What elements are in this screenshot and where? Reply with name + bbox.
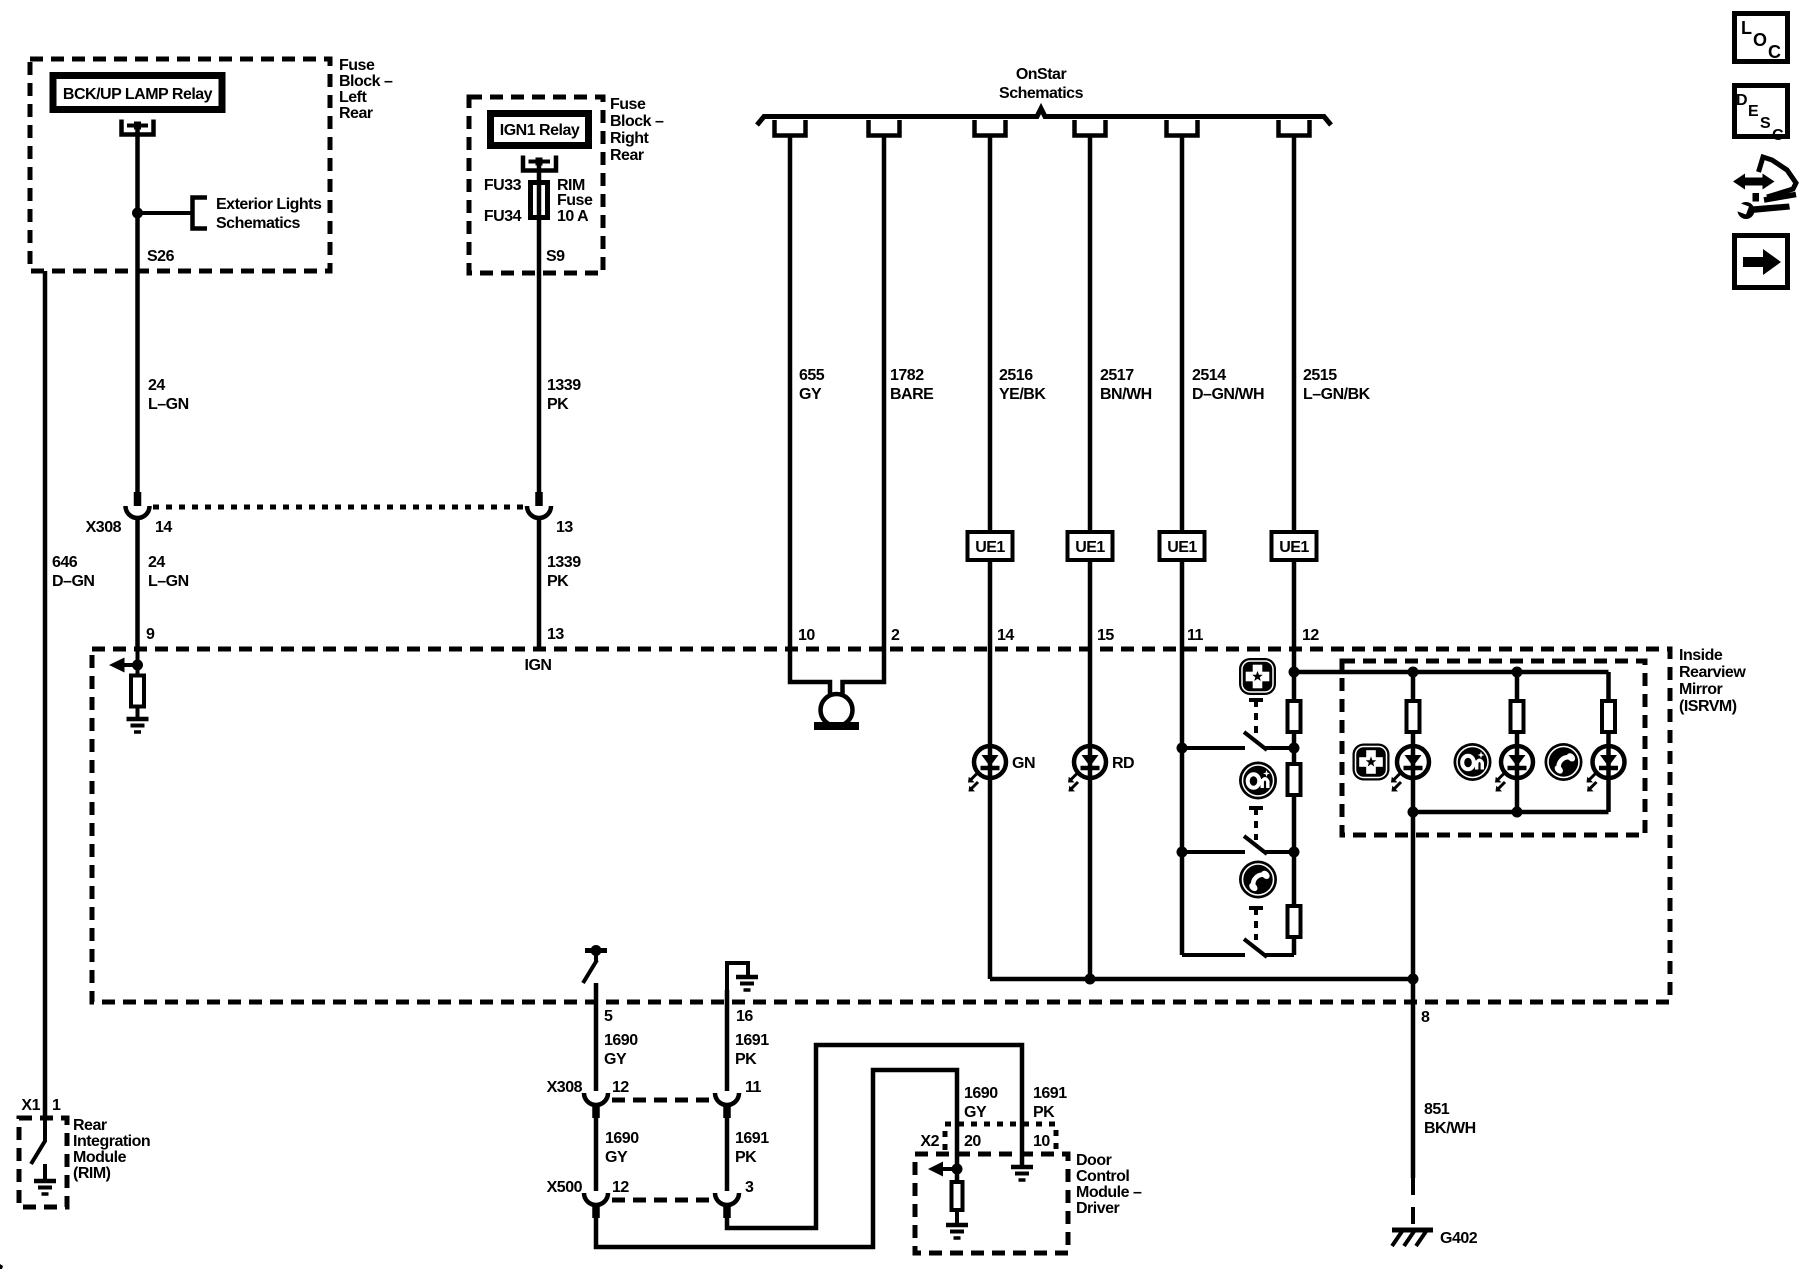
- svg-text:655: 655: [799, 367, 825, 384]
- OnStar button linkage: [1249, 808, 1263, 840]
- svg-text:Left: Left: [339, 89, 368, 106]
- svg-text:PK: PK: [735, 1051, 757, 1068]
- LED cluster bottom rail: [1413, 810, 1609, 815]
- node return bus junction: [1408, 974, 1419, 985]
- svg-text:10: 10: [798, 627, 815, 644]
- svg-text:(ISRVM): (ISRVM): [1679, 698, 1737, 715]
- wire label 1690 GY upper: [604, 1032, 638, 1068]
- connector X500 dashed link: [612, 1198, 713, 1203]
- svg-text:IGN1 Relay: IGN1 Relay: [500, 122, 580, 139]
- wire 2517 BN/WH: [1088, 135, 1093, 979]
- wire pin9 to ground: [136, 649, 140, 718]
- svg-text:3: 3: [745, 1179, 754, 1196]
- phone cluster icon: [1545, 743, 1583, 781]
- wire branch to Exterior Lights Schematics: [138, 211, 193, 215]
- ground internal pin16: [736, 977, 758, 990]
- svg-text:Block –: Block –: [339, 73, 393, 90]
- ISRVM label: [1679, 647, 1746, 715]
- svg-text:X500: X500: [547, 1179, 583, 1196]
- OnStar cluster icon: [1454, 743, 1492, 781]
- cluster LED2: [1495, 746, 1533, 792]
- svg-text:UE1: UE1: [1075, 539, 1105, 556]
- svg-text:1691: 1691: [735, 1032, 769, 1049]
- wire 2514 D-GN/WH: [1180, 135, 1185, 955]
- svg-text:GY: GY: [964, 1104, 987, 1121]
- svg-text:20: 20: [964, 1133, 981, 1150]
- wire 655 GY: [790, 135, 830, 695]
- svg-text:Schematics: Schematics: [999, 85, 1084, 102]
- svg-text:1339: 1339: [547, 377, 581, 394]
- fuse block left rear label: [339, 57, 393, 122]
- svg-text:C: C: [1772, 127, 1784, 144]
- OnStar switch blade: [1244, 836, 1294, 854]
- svg-text:GY: GY: [799, 386, 822, 403]
- svg-text:9: 9: [146, 626, 155, 643]
- LED indicator GN: [968, 746, 1006, 792]
- svg-text:646: 646: [52, 554, 78, 571]
- svg-text:L–GN: L–GN: [148, 396, 189, 413]
- svg-text:Exterior Lights: Exterior Lights: [216, 196, 322, 213]
- LED indicator RD: [1068, 746, 1106, 792]
- svg-text:1690: 1690: [604, 1032, 638, 1049]
- svg-text:Fuse: Fuse: [339, 57, 375, 74]
- svg-text:1691: 1691: [735, 1130, 769, 1147]
- wire pin5: [594, 983, 599, 1091]
- node branch2 top: [1512, 667, 1523, 678]
- relay K1 BCK/UP LAMP Relay box: [53, 76, 222, 110]
- wire label 2515: [1303, 367, 1371, 403]
- svg-text:11: 11: [1187, 627, 1204, 644]
- svg-text:(RIM): (RIM): [73, 1165, 111, 1182]
- svg-text:D–GN/WH: D–GN/WH: [1192, 386, 1264, 403]
- svg-text:1: 1: [52, 1097, 61, 1114]
- svg-text:E: E: [1748, 103, 1759, 120]
- wire label 2514: [1192, 367, 1264, 403]
- svg-text:IGN: IGN: [525, 657, 552, 674]
- resistor R3 on wire 12: [1288, 906, 1301, 937]
- svg-text:Mirror: Mirror: [1679, 681, 1723, 698]
- svg-text:Rear: Rear: [73, 1117, 107, 1134]
- wire 2515 L-GN/BK: [1292, 135, 1297, 955]
- svg-text:13: 13: [556, 519, 573, 536]
- svg-text:UE1: UE1: [1167, 539, 1197, 556]
- wire 1691 PK routing: [727, 1045, 1022, 1228]
- svg-text:1691: 1691: [1033, 1085, 1067, 1102]
- wire 851 dashed to G402: [1411, 1178, 1415, 1230]
- svg-text:L–GN/BK: L–GN/BK: [1303, 386, 1371, 403]
- svg-text:Module –: Module –: [1076, 1184, 1142, 1201]
- resistor R2 on wire 12: [1288, 764, 1301, 795]
- svg-text:2517: 2517: [1100, 367, 1134, 384]
- svg-text:24: 24: [148, 377, 165, 394]
- svg-text:Fuse: Fuse: [557, 192, 593, 209]
- svg-text:15: 15: [1097, 627, 1114, 644]
- rear integration module dashed box: [19, 1118, 67, 1207]
- resistor DCM: [952, 1182, 963, 1210]
- emergency button icon: [1239, 658, 1276, 695]
- branch LED2 wire: [1515, 672, 1520, 812]
- wire 24 L-GN lower: [135, 517, 140, 649]
- svg-text:S9: S9: [546, 248, 565, 265]
- internal switch blade pin5: [583, 960, 597, 983]
- cluster LED3: [1587, 746, 1625, 792]
- svg-text:FU33: FU33: [484, 177, 522, 194]
- svg-text:Rearview: Rearview: [1679, 664, 1746, 681]
- svg-text:X2: X2: [920, 1133, 939, 1150]
- svg-text:GY: GY: [604, 1051, 627, 1068]
- svg-text:BARE: BARE: [890, 386, 934, 403]
- fuse FU33/FU34 RIM Fuse 10 A: [484, 177, 593, 225]
- resistor R1 on wire 12: [1288, 701, 1301, 732]
- resistor body: [131, 676, 144, 707]
- relay K2 pin terminal: [523, 156, 556, 171]
- wire 1782 BARE: [843, 135, 885, 695]
- svg-text:O: O: [1753, 30, 1767, 50]
- connector UE1: [1068, 532, 1113, 560]
- ground DCM pin20: [946, 1225, 968, 1238]
- svg-text:12: 12: [1302, 627, 1319, 644]
- wire label 1690 GY at X2: [964, 1085, 998, 1121]
- relay K2 IGN1 Relay box: [491, 114, 589, 146]
- svg-text:14: 14: [997, 627, 1014, 644]
- OnStar Schematics brace: [757, 109, 1331, 126]
- svg-text:UE1: UE1: [1279, 539, 1309, 556]
- svg-text:Rear: Rear: [610, 147, 644, 164]
- node S26 junction: [132, 208, 143, 219]
- svg-text:1339: 1339: [547, 554, 581, 571]
- svg-text:GN: GN: [1012, 755, 1035, 772]
- wire pin16: [725, 990, 730, 1091]
- svg-text:12: 12: [612, 1079, 629, 1096]
- wire resistor to ground DCM: [955, 1210, 959, 1224]
- rear integration module label: [73, 1117, 150, 1182]
- wire 12 feed rail to LED cluster: [1294, 670, 1609, 675]
- connector X2 dotted boundary: [945, 1124, 1056, 1150]
- ground return bus: [990, 977, 1413, 982]
- antenna coax termination: [814, 694, 859, 730]
- OnStar connector tab 2516: [975, 120, 1006, 136]
- ground RIM: [34, 1181, 56, 1194]
- svg-text:D–GN: D–GN: [52, 573, 94, 590]
- branch LED3 wire: [1606, 672, 1611, 812]
- internal ground bend pin16: [727, 963, 748, 994]
- relay K1 pin terminal: [122, 120, 154, 135]
- wire pin20 inside DCM: [955, 1124, 960, 1183]
- wire label 1339 PK: [547, 377, 581, 413]
- svg-text:12: 12: [612, 1179, 629, 1196]
- svg-text:BN/WH: BN/WH: [1100, 386, 1152, 403]
- OnStar connector tab 1782: [869, 120, 900, 136]
- svg-text:8: 8: [1421, 1009, 1430, 1026]
- svg-text:1690: 1690: [964, 1085, 998, 1102]
- fuse block left rear dashed box: [30, 59, 330, 271]
- arrow DCM internal: [928, 1162, 957, 1177]
- emergency cluster icon: [1353, 744, 1390, 781]
- wire 646 D-GN: [43, 271, 48, 1118]
- wire 1690 GY routing: [596, 1070, 957, 1247]
- node bottom rail b2: [1512, 807, 1523, 818]
- phone button linkage: [1249, 908, 1263, 940]
- svg-text:S26: S26: [147, 248, 175, 265]
- wire label 2516: [999, 367, 1046, 403]
- svg-text:2515: 2515: [1303, 367, 1337, 384]
- wire 2516 YE/BK: [988, 135, 993, 979]
- svg-text:UE1: UE1: [975, 539, 1005, 556]
- OnStar connector tab 2514: [1167, 120, 1198, 136]
- wire label 1691 PK at X2: [1033, 1085, 1067, 1121]
- arrow to module internals: [109, 658, 138, 673]
- resistor LED1: [1407, 701, 1420, 732]
- page corner mark: [0, 1264, 3, 1269]
- switch rail 1 from wire 11: [1182, 746, 1245, 750]
- svg-text:YE/BK: YE/BK: [999, 386, 1046, 403]
- svg-text:PK: PK: [547, 396, 569, 413]
- fuse block right rear dashed box: [469, 97, 603, 273]
- wire 1339 PK through fuse: [537, 165, 542, 493]
- svg-text:851: 851: [1424, 1101, 1450, 1118]
- connector X308 pin 12: [584, 1093, 608, 1118]
- emergency button linkage: [1249, 700, 1263, 736]
- OnStar button icon: [1239, 762, 1277, 800]
- connector X500 pin 12: [584, 1193, 608, 1218]
- forward arrow box: [1735, 236, 1788, 288]
- connector X308 row2 dashed link: [612, 1098, 713, 1103]
- svg-text:D: D: [1736, 92, 1748, 109]
- cluster LED1: [1391, 746, 1429, 792]
- svg-text:X1: X1: [21, 1097, 40, 1114]
- RIM ground stub: [43, 1164, 47, 1180]
- svg-text:2516: 2516: [999, 367, 1033, 384]
- inside rearview mirror ISRVM dashed box: [92, 649, 1670, 1002]
- svg-text:RD: RD: [1112, 755, 1134, 772]
- svg-text:Module: Module: [73, 1149, 127, 1166]
- node rail2-wire11: [1177, 847, 1188, 858]
- svg-text:10 A: 10 A: [557, 208, 589, 225]
- switch rail 3 from wire 11: [1182, 953, 1245, 957]
- wire 1691 PK mid: [725, 1117, 730, 1191]
- node rail1-wire11: [1177, 743, 1188, 754]
- connector UE1: [968, 532, 1013, 560]
- OnStar connector tab 655: [775, 120, 806, 136]
- emergency switch blade: [1244, 732, 1294, 750]
- connector X308 pin 11: [715, 1093, 739, 1118]
- svg-text:Right: Right: [610, 130, 650, 147]
- RIM switch stub: [43, 1118, 47, 1142]
- wire 1339 PK lower: [537, 517, 542, 649]
- svg-text:11: 11: [745, 1079, 762, 1096]
- connector X500 pin 3: [715, 1193, 739, 1218]
- svg-text:1690: 1690: [605, 1130, 639, 1147]
- svg-text:24: 24: [148, 554, 165, 571]
- branch LED1 wire: [1411, 672, 1416, 812]
- node branch1 top: [1408, 667, 1419, 678]
- svg-text:FU34: FU34: [484, 208, 522, 225]
- node rail2-wire12: [1289, 847, 1300, 858]
- wire label 24 L-GN lower: [148, 554, 189, 590]
- door control module label: [1076, 1152, 1142, 1217]
- svg-text:Inside: Inside: [1679, 647, 1723, 664]
- node bottom rail b1: [1408, 807, 1419, 818]
- phone switch blade: [1244, 939, 1294, 957]
- svg-text:16: 16: [736, 1008, 753, 1025]
- node rail1-wire12: [1289, 743, 1300, 754]
- OnStar connector tab 2515: [1279, 120, 1310, 136]
- ground DCM pin10: [1011, 1167, 1033, 1180]
- svg-text:Fuse: Fuse: [610, 96, 646, 113]
- wire 851 BK/WH label: [1424, 1101, 1476, 1137]
- RIM switch blade: [31, 1141, 45, 1164]
- wire label 1691 PK upper: [735, 1032, 769, 1068]
- wire label 1690 GY mid: [605, 1130, 639, 1166]
- svg-text:2514: 2514: [1192, 367, 1226, 384]
- wire 851 BK/WH upper: [1411, 812, 1416, 1178]
- svg-text:1782: 1782: [890, 367, 924, 384]
- svg-text:L–GN: L–GN: [148, 573, 189, 590]
- wire label 2517: [1100, 367, 1152, 403]
- svg-text:BK/WH: BK/WH: [1424, 1120, 1476, 1137]
- resistor LED2: [1511, 701, 1524, 732]
- svg-text:GY: GY: [605, 1149, 628, 1166]
- resistor LED3: [1602, 701, 1615, 732]
- svg-text:Schematics: Schematics: [216, 215, 301, 232]
- fuse block right rear label: [610, 96, 664, 164]
- wire label 646 D-GN: [52, 554, 94, 590]
- switch rail 2 from wire 11: [1182, 850, 1245, 854]
- wire label 655: [799, 367, 825, 403]
- node wire12 top junction: [1289, 667, 1300, 678]
- svg-text:X308: X308: [547, 1079, 583, 1096]
- OnStar Schematics label: [999, 66, 1084, 102]
- connector X308 pin 14: [126, 492, 150, 518]
- svg-text:14: 14: [155, 519, 172, 536]
- LED cluster inner dashed box: [1342, 661, 1645, 835]
- resistor pull-down pin9: [131, 676, 144, 707]
- wire 1690 GY mid: [594, 1117, 599, 1191]
- ground internal ISRVM: [127, 719, 149, 732]
- svg-text:L: L: [1741, 18, 1752, 38]
- OnStar connector tab 2517: [1075, 120, 1106, 136]
- svg-text:Control: Control: [1076, 1168, 1129, 1185]
- svg-text:Rear: Rear: [339, 105, 373, 122]
- LOC reference box: [1735, 14, 1788, 63]
- wire pin10 inside DCM: [1020, 1124, 1025, 1166]
- svg-text:13: 13: [547, 626, 564, 643]
- node pin20 junction: [952, 1164, 963, 1175]
- door control module dashed box: [915, 1154, 1068, 1253]
- DESC reference box: [1735, 86, 1788, 145]
- connector UE1: [1160, 532, 1205, 560]
- Exterior Lights Schematics reference bracket: [193, 196, 323, 232]
- connector X308 dotted link: [153, 505, 524, 510]
- wire label 24 L-GN: [148, 377, 189, 413]
- svg-text:Door: Door: [1076, 1152, 1112, 1169]
- svg-text:C: C: [1768, 42, 1781, 62]
- node pin9 junction: [132, 660, 143, 671]
- phone button icon: [1239, 861, 1277, 899]
- svg-text:OnStar: OnStar: [1016, 66, 1067, 83]
- svg-text:PK: PK: [547, 573, 569, 590]
- wire label 1782: [890, 367, 934, 403]
- svg-text:PK: PK: [1033, 1104, 1055, 1121]
- double arrow navigation icon: [1731, 157, 1796, 219]
- svg-text:G402: G402: [1440, 1230, 1478, 1247]
- svg-text:10: 10: [1033, 1133, 1050, 1150]
- internal switch contact bar: [585, 945, 607, 961]
- connector UE1: [1272, 532, 1317, 560]
- ground G402 chassis symbol: [1392, 1230, 1433, 1246]
- wire label 1339 PK lower: [547, 554, 581, 590]
- svg-text:Driver: Driver: [1076, 1200, 1120, 1217]
- connector X308 pin 13: [527, 492, 551, 518]
- svg-text:Integration: Integration: [73, 1133, 150, 1150]
- svg-text:Block –: Block –: [610, 113, 664, 130]
- wire label 1691 PK mid: [735, 1130, 769, 1166]
- svg-text:X308: X308: [86, 519, 122, 536]
- node RD LED return: [1085, 974, 1096, 985]
- svg-text:BCK/UP LAMP Relay: BCK/UP LAMP Relay: [63, 86, 213, 103]
- svg-text:2: 2: [891, 627, 900, 644]
- wire 24 L-GN from relay to S26: [135, 129, 140, 493]
- svg-text:PK: PK: [735, 1149, 757, 1166]
- svg-text:5: 5: [604, 1008, 613, 1025]
- svg-text:S: S: [1760, 115, 1771, 132]
